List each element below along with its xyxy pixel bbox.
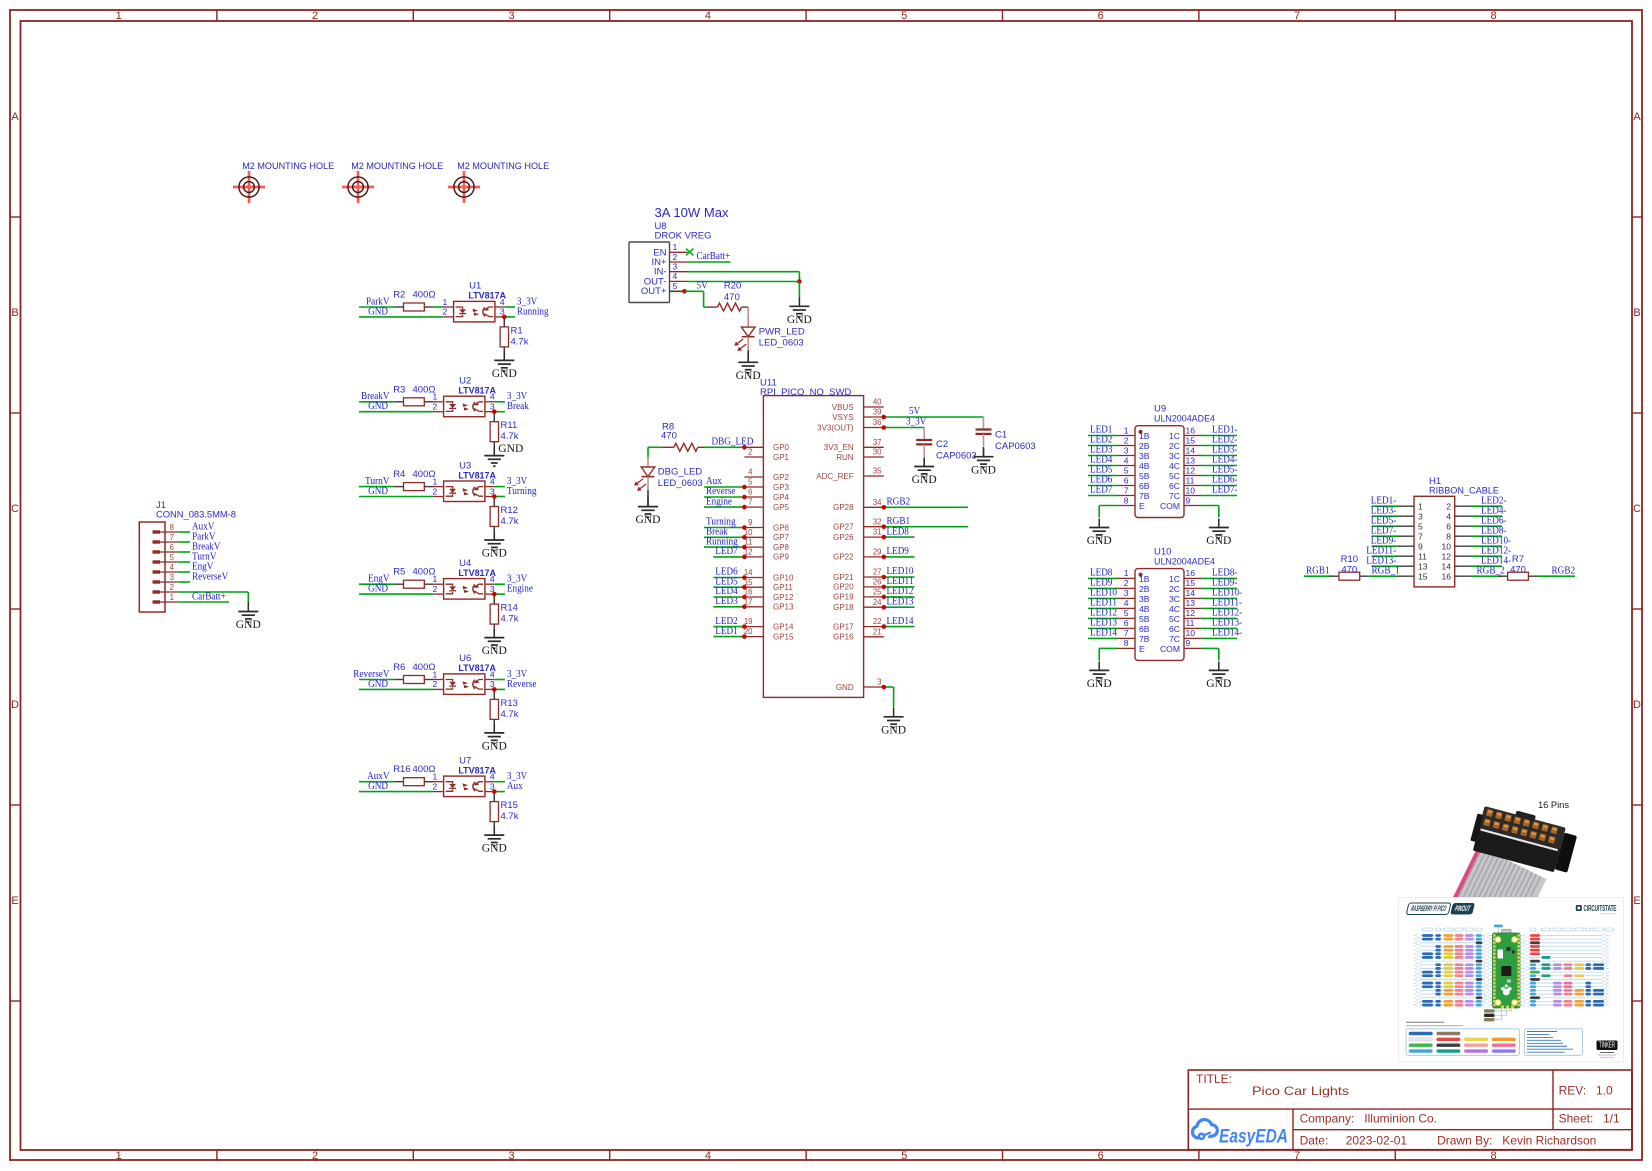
opto U6 body xyxy=(433,679,444,681)
svg-text:GP11: GP11 xyxy=(773,583,793,592)
wire ParkV to R2 xyxy=(359,306,394,308)
U11 pin 20 GP15 xyxy=(744,636,763,638)
optocoupler U3 LTV817A row (TurnV) xyxy=(359,460,537,559)
svg-text:M2 MOUNTING HOLE: M2 MOUNTING HOLE xyxy=(457,161,549,172)
U9 pin 2 2B xyxy=(1118,445,1135,447)
wire net LED11- to H1 xyxy=(1372,555,1398,557)
svg-text:RGB1: RGB1 xyxy=(887,516,911,527)
H1 pin 3 xyxy=(1397,515,1414,517)
svg-text:7: 7 xyxy=(1124,628,1129,638)
wire junction to ground xyxy=(798,282,800,298)
wire R8 down to DBG_LED xyxy=(647,447,649,457)
U11 pin 21 GP16 xyxy=(864,636,884,638)
svg-text:RGB1: RGB1 xyxy=(1306,565,1330,576)
svg-text:4: 4 xyxy=(500,297,505,307)
resistor R5 400&#937; xyxy=(394,583,403,585)
svg-text:13: 13 xyxy=(1186,455,1196,465)
svg-text:470: 470 xyxy=(1341,565,1357,576)
wire net LED3- to H1 xyxy=(1372,515,1398,517)
svg-text:1: 1 xyxy=(673,242,678,252)
ground at U11 pin 3 xyxy=(893,708,895,717)
svg-text:3C: 3C xyxy=(1169,451,1180,461)
svg-text:1B: 1B xyxy=(1139,574,1150,584)
svg-text:4: 4 xyxy=(1124,455,1129,465)
svg-text:GND: GND xyxy=(1087,678,1112,690)
junction LED7 xyxy=(742,555,747,560)
wire U4 pin 3 to Engine xyxy=(485,593,494,595)
svg-text:GP17: GP17 xyxy=(833,622,854,631)
wire U9 to net LED7- xyxy=(1201,495,1237,497)
wire net LED5- to H1 xyxy=(1372,525,1398,527)
svg-text:1.0: 1.0 xyxy=(1596,1084,1613,1098)
resistor R10 470 xyxy=(1330,554,1369,580)
ground below DBG_LED xyxy=(647,490,649,507)
svg-text:1: 1 xyxy=(433,574,438,584)
U11 pin 19 GP14 xyxy=(744,626,763,628)
U9 pin 5 5B xyxy=(1118,475,1135,477)
svg-text:8: 8 xyxy=(1124,638,1129,648)
U11 pin 22 GP17 xyxy=(864,626,884,628)
svg-text:3: 3 xyxy=(170,573,174,582)
wire U11 to net LED14 xyxy=(884,626,915,628)
wire net LED1 to U11 xyxy=(713,636,744,638)
junction U7 pin 3 xyxy=(492,789,497,794)
svg-text:6B: 6B xyxy=(1139,481,1150,491)
svg-text:9: 9 xyxy=(1186,638,1191,648)
svg-text:2: 2 xyxy=(1124,578,1129,588)
image: Raspberry Pi Pico pinout card xyxy=(1399,898,1624,1063)
junction Turning xyxy=(742,525,747,530)
svg-text:12: 12 xyxy=(1186,465,1196,475)
svg-text:C1: C1 xyxy=(995,429,1007,440)
optocoupler U6 LTV817A row (ReverseV) xyxy=(353,653,537,752)
svg-text:16 Pins: 16 Pins xyxy=(1538,800,1569,811)
wire net LED9- to H1 xyxy=(1372,545,1398,547)
svg-text:9: 9 xyxy=(1186,495,1191,505)
svg-text:E: E xyxy=(1139,644,1145,654)
svg-text:R16: R16 xyxy=(393,764,410,775)
svg-text:TINKER: TINKER xyxy=(1599,1040,1615,1049)
svg-text:GND: GND xyxy=(482,741,507,753)
svg-text:Turning: Turning xyxy=(507,486,537,497)
wire H1 to net LED10- xyxy=(1472,545,1502,547)
wire net LED6 to U11 xyxy=(713,577,744,579)
svg-text:GND: GND xyxy=(368,486,388,497)
wire U10 to net LED8- xyxy=(1201,577,1237,579)
svg-text:2: 2 xyxy=(433,402,438,412)
svg-text:GP27: GP27 xyxy=(833,523,854,532)
junction U6 pin 3 xyxy=(492,687,497,692)
svg-text:3: 3 xyxy=(508,10,514,22)
junction Reverse xyxy=(742,495,747,500)
svg-text:R6: R6 xyxy=(393,662,405,673)
ground at U10 E xyxy=(1098,661,1100,670)
svg-text:OUT+: OUT+ xyxy=(641,286,667,297)
svg-text:R20: R20 xyxy=(724,281,741,292)
wire R6 to U6 pin 1 xyxy=(432,679,434,681)
wire U11 to net RGB2 xyxy=(884,506,968,508)
U10 pin 6 6B xyxy=(1118,627,1135,629)
svg-text:D: D xyxy=(1633,699,1641,711)
svg-text:GP14: GP14 xyxy=(773,622,794,631)
svg-text:6: 6 xyxy=(1098,1150,1104,1162)
wire U9 to net LED6- xyxy=(1201,485,1237,487)
ground below R13 xyxy=(493,719,495,733)
wire net LED13 to U10 xyxy=(1088,627,1118,629)
svg-text:13: 13 xyxy=(1418,561,1428,571)
svg-text:LED_0603: LED_0603 xyxy=(658,478,703,489)
svg-text:31: 31 xyxy=(873,528,882,537)
U9 pin 7 7B xyxy=(1118,495,1135,497)
svg-text:2023-02-01: 2023-02-01 xyxy=(1346,1134,1408,1148)
svg-text:15: 15 xyxy=(1418,571,1428,581)
svg-text:EasyEDA: EasyEDA xyxy=(1219,1127,1288,1148)
svg-text:GND: GND xyxy=(368,306,388,317)
svg-text:GND: GND xyxy=(368,401,388,412)
svg-text:3A 10W Max: 3A 10W Max xyxy=(655,205,729,220)
LED DBG_LED LED_0603 xyxy=(634,457,703,491)
H1 pin 1 xyxy=(1397,505,1414,507)
U9 pin 13 4C xyxy=(1184,465,1201,467)
svg-text:GND: GND xyxy=(1206,535,1231,547)
svg-text:GND: GND xyxy=(482,843,507,855)
U11 pin 11 GP8 xyxy=(744,546,763,548)
U10 pin 9 COM xyxy=(1184,647,1201,649)
junction LED10 xyxy=(882,575,887,580)
wire net LED7 to U11 xyxy=(713,556,744,558)
svg-text:GND: GND xyxy=(636,514,661,526)
svg-text:2: 2 xyxy=(1446,501,1451,511)
wire U11 to net LED8 xyxy=(884,536,915,538)
wire GND input rail xyxy=(359,593,433,595)
svg-text:5: 5 xyxy=(673,281,678,291)
wire U10 to net LED13- xyxy=(1201,627,1237,629)
optocoupler U4 LTV817A row (EngV) xyxy=(359,558,533,657)
junction Aux xyxy=(742,485,747,490)
svg-text:E: E xyxy=(1633,895,1640,907)
wire U10 to net LED11- xyxy=(1201,607,1237,609)
U11 pin 35 ADC_REF xyxy=(864,475,884,477)
opto U4 body xyxy=(433,583,444,585)
U10 pin 11 6C xyxy=(1184,627,1201,629)
svg-text:R3: R3 xyxy=(393,384,405,395)
svg-text:470: 470 xyxy=(661,431,677,442)
svg-text:4B: 4B xyxy=(1139,604,1150,614)
U9 pin 15 2C xyxy=(1184,445,1201,447)
svg-text:36: 36 xyxy=(873,418,882,427)
svg-text:1: 1 xyxy=(433,772,438,782)
svg-text:7: 7 xyxy=(1418,531,1423,541)
svg-text:VBUS: VBUS xyxy=(832,403,854,412)
svg-text:GND: GND xyxy=(492,368,517,380)
svg-text:GP9: GP9 xyxy=(773,553,790,562)
svg-text:2: 2 xyxy=(433,781,438,791)
U9 pin 9 COM xyxy=(1184,505,1201,507)
H1 pin 11 xyxy=(1397,555,1414,557)
J1 pin 4 xyxy=(153,570,161,573)
svg-text:2B: 2B xyxy=(1139,584,1150,594)
ground at J1 pin 2 xyxy=(247,603,249,612)
darlington driver U10 ULN2004ADE4 xyxy=(1118,547,1215,661)
svg-text:1: 1 xyxy=(433,476,438,486)
svg-text:37: 37 xyxy=(873,438,882,447)
svg-text:B: B xyxy=(11,307,18,319)
wire net Aux to U11 xyxy=(704,486,744,488)
wire U9 to net LED2- xyxy=(1201,445,1237,447)
svg-text:DROK VREG: DROK VREG xyxy=(655,231,712,242)
wire U3 pin 4 to 3_3V xyxy=(485,486,494,488)
U8 pin 2 IN+ xyxy=(670,261,688,263)
svg-text:CAP0603: CAP0603 xyxy=(936,451,977,462)
svg-text:2: 2 xyxy=(312,10,318,22)
junction LED3 xyxy=(742,605,747,610)
svg-text:3: 3 xyxy=(1124,588,1129,598)
wire U9 to net LED1- xyxy=(1201,435,1237,437)
svg-text:Engine: Engine xyxy=(507,584,534,595)
svg-text:1/1: 1/1 xyxy=(1603,1112,1620,1126)
wire VSYS to 5V rail xyxy=(884,416,984,418)
svg-text:PWR_LED: PWR_LED xyxy=(759,326,805,337)
svg-text:5: 5 xyxy=(170,553,175,562)
wire net LED5 to U9 xyxy=(1088,475,1118,477)
svg-text:6: 6 xyxy=(170,543,174,552)
U11 pin 29 GP22 xyxy=(864,556,884,558)
svg-text:R2: R2 xyxy=(393,290,405,301)
capacitor C2 CAP0603 xyxy=(916,428,976,462)
wire H1 to net LED2- xyxy=(1472,505,1502,507)
svg-text:Kevin Richardson: Kevin Richardson xyxy=(1502,1134,1596,1148)
svg-text:3B: 3B xyxy=(1139,594,1150,604)
svg-text:R11: R11 xyxy=(501,420,518,431)
U10 pin 3 3B xyxy=(1118,597,1135,599)
U11 pin 37 3V3_EN xyxy=(864,446,884,448)
svg-text:GP1: GP1 xyxy=(773,453,790,462)
U11 pin 26 GP20 xyxy=(864,586,884,588)
U10 pin 5 5B xyxy=(1118,617,1135,619)
svg-text:GND: GND xyxy=(1206,678,1231,690)
svg-text:6: 6 xyxy=(748,488,752,497)
resistor R12 4.7k xyxy=(493,497,495,507)
svg-text:6: 6 xyxy=(1446,521,1451,531)
svg-text:5B: 5B xyxy=(1139,471,1150,481)
svg-text:GND: GND xyxy=(736,370,761,382)
svg-text:GND: GND xyxy=(368,679,388,690)
svg-text:COM: COM xyxy=(1160,501,1180,511)
wire U11 to net LED9 xyxy=(884,556,915,558)
wire net LED3 to U11 xyxy=(713,606,744,608)
wire J1 pin 7 to net ParkV xyxy=(178,541,190,543)
U8 pin 1 EN xyxy=(670,251,688,253)
svg-text:14: 14 xyxy=(1186,588,1196,598)
wire AuxV to R16 xyxy=(359,781,394,783)
U11 pin 34 GP28 xyxy=(864,506,884,508)
svg-text:CIRCUITSTATE: CIRCUITSTATE xyxy=(1584,904,1617,913)
svg-text:6: 6 xyxy=(1124,475,1129,485)
wire U11 to net LED13 xyxy=(884,606,915,608)
svg-text:REV:: REV: xyxy=(1559,1084,1587,1098)
svg-text:4: 4 xyxy=(490,772,495,782)
U10 pin 10 7C xyxy=(1184,637,1201,639)
U9 pin 16 1C xyxy=(1184,435,1201,437)
wire net LED11 to U10 xyxy=(1088,607,1118,609)
svg-text:R13: R13 xyxy=(501,698,518,709)
wire U11 to net RGB1 xyxy=(884,526,968,528)
svg-text:14: 14 xyxy=(1186,445,1196,455)
svg-text:GP3: GP3 xyxy=(773,483,790,492)
wire net LED9 to U10 xyxy=(1088,587,1118,589)
svg-text:GND: GND xyxy=(368,781,388,792)
wire U10 to net LED9- xyxy=(1201,587,1237,589)
mounting hole M2 MOUNTING HOLE at x=358 xyxy=(342,161,443,203)
svg-text:12: 12 xyxy=(1441,551,1451,561)
wire net LED2 to U11 xyxy=(713,626,744,628)
J1 pin 8 xyxy=(153,530,161,533)
svg-text:9: 9 xyxy=(748,518,752,527)
header H1 RIBBON_CABLE xyxy=(1397,476,1499,587)
wire U11 to net LED12 xyxy=(884,596,915,598)
H1 pin 6 xyxy=(1455,525,1472,527)
wire R3 to U2 pin 1 xyxy=(432,401,434,403)
wire H1 pin 16 through R7 to RGB2 xyxy=(1472,575,1503,577)
svg-text:2: 2 xyxy=(312,1150,318,1162)
svg-text:10: 10 xyxy=(1186,628,1196,638)
wire H1 to net LED4- xyxy=(1472,515,1502,517)
svg-text:14: 14 xyxy=(1441,561,1451,571)
svg-text:GND: GND xyxy=(787,314,812,326)
svg-text:GP7: GP7 xyxy=(773,533,790,542)
junction U1 pin 3 xyxy=(502,315,507,320)
U9 pin 8 E xyxy=(1118,505,1135,507)
wire U2 pin 4 to 3_3V xyxy=(485,401,494,403)
svg-text:LED14: LED14 xyxy=(887,616,914,627)
resistor R2 400&#937; xyxy=(394,306,403,308)
junction LED12 xyxy=(882,595,887,600)
svg-text:GP20: GP20 xyxy=(833,583,854,592)
mounting hole M2 MOUNTING HOLE at x=249 xyxy=(233,161,334,203)
H1 pin 12 xyxy=(1455,555,1472,557)
svg-text:RGB2: RGB2 xyxy=(887,497,911,508)
svg-text:11: 11 xyxy=(1186,475,1195,485)
svg-text:9: 9 xyxy=(1418,541,1423,551)
U11 pin 17 GP13 xyxy=(744,606,763,608)
wire net LED6 to U9 xyxy=(1088,485,1118,487)
J1 pin 2 xyxy=(153,590,161,593)
wire GND input rail xyxy=(359,316,443,318)
wire J1 pin 1 CarBatt+ xyxy=(178,601,229,603)
svg-text:3: 3 xyxy=(1124,445,1129,455)
title block xyxy=(1188,1070,1632,1150)
svg-text:4: 4 xyxy=(705,1150,711,1162)
wire U10 E to ground xyxy=(1099,647,1118,649)
junction U4 pin 3 xyxy=(492,592,497,597)
svg-text:GP8: GP8 xyxy=(773,543,790,552)
U9 pin 3 3B xyxy=(1118,455,1135,457)
svg-text:4.7k: 4.7k xyxy=(501,811,519,822)
svg-text:PINOUT: PINOUT xyxy=(1454,904,1472,913)
svg-text:ADC_REF: ADC_REF xyxy=(816,472,853,481)
svg-text:32: 32 xyxy=(873,517,882,526)
svg-text:3: 3 xyxy=(1418,511,1423,521)
opto U1 body xyxy=(443,306,454,308)
wire U9 to net LED5- xyxy=(1201,475,1237,477)
wire J1 pin 8 to net AuxV xyxy=(178,531,190,533)
svg-text:GP2: GP2 xyxy=(773,473,790,482)
ground below C1 xyxy=(983,447,985,457)
svg-text:M2 MOUNTING HOLE: M2 MOUNTING HOLE xyxy=(351,161,443,172)
svg-text:3: 3 xyxy=(673,262,678,272)
svg-text:2: 2 xyxy=(1124,435,1129,445)
U9 pin 4 4B xyxy=(1118,465,1135,467)
wire U7 pin 3 to Aux xyxy=(485,791,494,793)
wire net LED1- to H1 xyxy=(1372,505,1398,507)
junction LED8 xyxy=(882,535,887,540)
svg-text:C2: C2 xyxy=(936,439,948,450)
no-connect flag on U8 pin 1 xyxy=(686,249,693,256)
U11 pin 16 GP12 xyxy=(744,596,763,598)
U11 pin 3 GND xyxy=(864,686,884,688)
U10 pin 2 2B xyxy=(1118,587,1135,589)
svg-text:GP16: GP16 xyxy=(833,633,854,642)
svg-text:4: 4 xyxy=(748,468,753,477)
wire U8 pin 5 OUT+ 5V xyxy=(670,290,685,292)
wire U6 pin 4 to 3_3V xyxy=(485,679,494,681)
svg-text:8: 8 xyxy=(1446,531,1451,541)
U11 pin 10 GP7 xyxy=(744,536,763,538)
ground below R1 xyxy=(503,347,505,361)
svg-text:GND: GND xyxy=(881,724,906,736)
svg-text:ULN2004ADE4: ULN2004ADE4 xyxy=(1154,414,1215,425)
svg-text:1C: 1C xyxy=(1169,574,1180,584)
U10 pin 13 4C xyxy=(1184,607,1201,609)
svg-text:22: 22 xyxy=(873,617,882,626)
svg-text:GP22: GP22 xyxy=(833,553,854,562)
svg-text:7: 7 xyxy=(170,533,174,542)
pinout: SWD tags below board xyxy=(1484,1009,1512,1021)
svg-text:2: 2 xyxy=(433,584,438,594)
svg-text:GP12: GP12 xyxy=(773,593,794,602)
junction RGB1 xyxy=(882,524,887,529)
svg-text:4: 4 xyxy=(490,574,495,584)
svg-text:25: 25 xyxy=(873,588,882,597)
svg-text:4.7k: 4.7k xyxy=(511,336,529,347)
svg-text:LED7: LED7 xyxy=(715,546,737,557)
optocoupler U7 LTV817A row (AuxV) xyxy=(359,755,528,854)
svg-text:3V3_EN: 3V3_EN xyxy=(824,443,854,452)
H1 pin 5 xyxy=(1397,525,1414,527)
svg-text:2C: 2C xyxy=(1169,584,1180,594)
ground at U8 OUT- xyxy=(798,297,800,306)
junction LED6 xyxy=(742,575,747,580)
svg-text:LED8: LED8 xyxy=(887,526,909,537)
svg-text:6: 6 xyxy=(1098,10,1104,22)
resistor R1 4.7k xyxy=(503,317,505,327)
svg-text:39: 39 xyxy=(873,408,882,417)
wire 3V3(OUT) to 3_3V xyxy=(884,427,924,429)
optocoupler U2 LTV817A row (BreakV) xyxy=(359,376,529,467)
wire net LED13- to H1 xyxy=(1372,565,1398,567)
wire net LED12 to U10 xyxy=(1088,617,1118,619)
wire GND input rail xyxy=(359,411,433,413)
svg-text:VSYS: VSYS xyxy=(832,413,853,422)
svg-text:M2 MOUNTING HOLE: M2 MOUNTING HOLE xyxy=(242,161,334,172)
svg-text:GND: GND xyxy=(971,464,996,476)
svg-text:7B: 7B xyxy=(1139,491,1150,501)
svg-text:8: 8 xyxy=(1490,1150,1496,1162)
resistor R13 4.7k xyxy=(493,689,495,699)
svg-text:Engine: Engine xyxy=(706,496,733,507)
wire net LED4 to U9 xyxy=(1088,465,1118,467)
junction LED9 xyxy=(882,555,887,560)
